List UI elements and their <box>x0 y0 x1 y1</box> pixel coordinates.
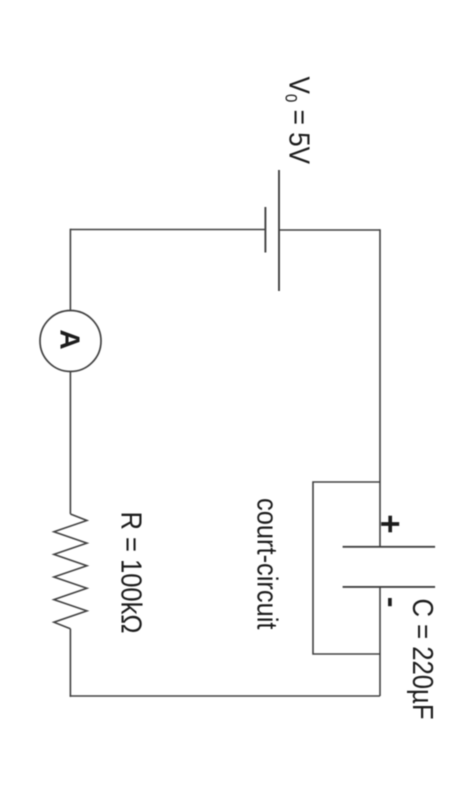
wire right lower (capacitor to bottom-right corner) <box>379 587 381 696</box>
short-circuit box <box>313 482 380 654</box>
svg-text:A: A <box>55 329 86 349</box>
wire left middle (ammeter to resistor) <box>69 372 71 515</box>
battery V0 <box>265 170 279 291</box>
wire right upper (corner to capacitor) <box>379 229 381 547</box>
ammeter A <box>40 311 101 372</box>
resistor R <box>54 514 87 629</box>
wire top-right (battery to top-right corner) <box>279 229 380 231</box>
svg-text:R = 100kΩ: R = 100kΩ <box>114 512 146 634</box>
label court-circuit <box>251 498 283 630</box>
wire top-left (battery to top-left corner) <box>70 229 265 231</box>
wire bottom <box>70 695 380 697</box>
wire left upper (corner to ammeter) <box>69 229 71 311</box>
minus sign <box>388 598 392 606</box>
plus sign <box>381 516 399 533</box>
label C = 220µF <box>406 599 438 720</box>
label R = 100kΩ <box>114 512 146 634</box>
svg-text:V0 = 5V: V0 = 5V <box>282 77 315 165</box>
capacitor C <box>343 547 436 587</box>
svg-text:court-circuit: court-circuit <box>251 498 283 630</box>
label V0 = 5V <box>282 77 315 165</box>
wire left lower (resistor to bottom-left corner) <box>69 629 71 697</box>
svg-text:C = 220µF: C = 220µF <box>406 599 438 720</box>
